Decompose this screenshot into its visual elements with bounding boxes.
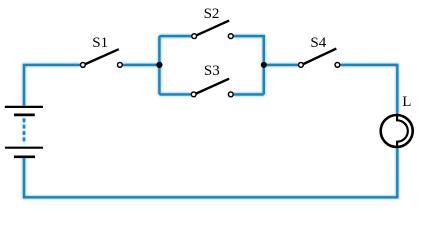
svg-text:L: L (402, 94, 411, 110)
svg-text:S1: S1 (92, 35, 108, 51)
svg-text:S4: S4 (310, 35, 326, 51)
svg-text:S3: S3 (204, 63, 220, 79)
svg-text:S2: S2 (204, 6, 220, 22)
